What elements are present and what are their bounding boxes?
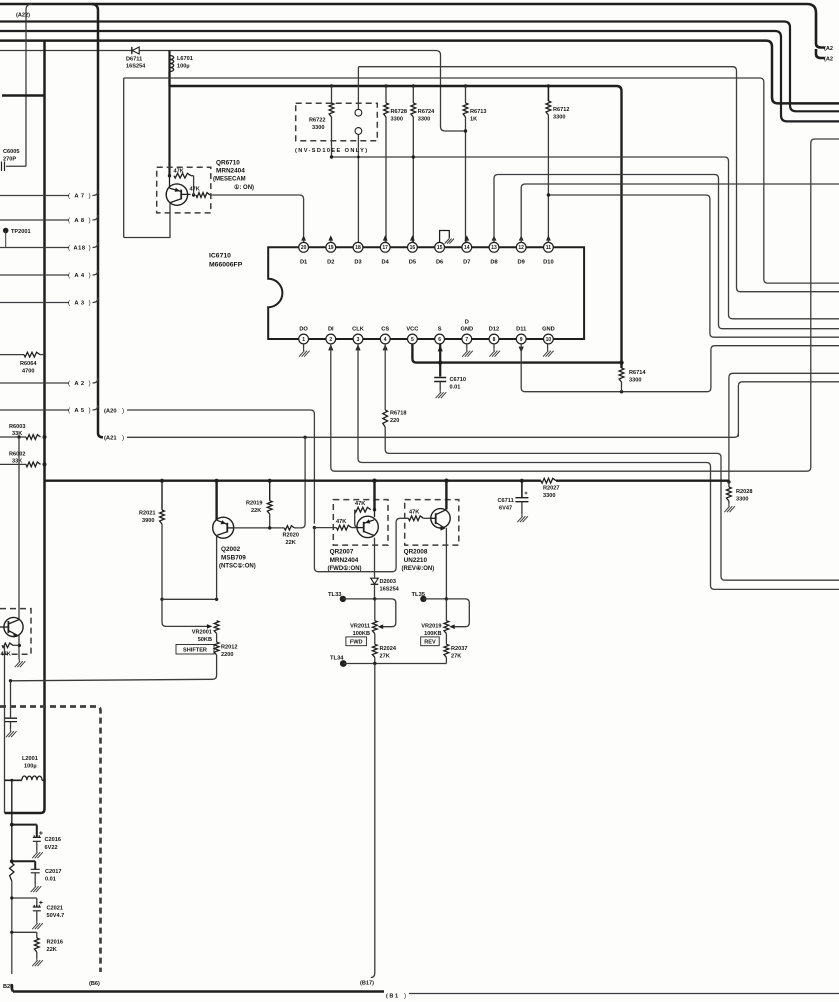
svg-text:D1: D1 — [300, 260, 307, 266]
svg-text:33K: 33K — [12, 431, 22, 437]
svg-text:D6: D6 — [436, 260, 443, 266]
wire: TL35 row to VR2019 wiper — [446, 599, 469, 629]
svg-text:16: 16 — [410, 245, 416, 251]
svg-text:100µ: 100µ — [177, 64, 190, 70]
svg-text:A 4: A 4 — [74, 273, 85, 279]
ground at pin 7 (D GND) — [462, 344, 473, 357]
svg-text:2: 2 — [329, 337, 332, 343]
svg-text:270P: 270P — [3, 157, 16, 163]
ground at pin 8 (D12) — [489, 344, 500, 357]
svg-text:(A20: (A20 — [104, 408, 117, 414]
wire: jumper top row y=66.7 to right edge — [358, 67, 839, 292]
diode D6711 16S254 — [126, 47, 146, 70]
svg-text:D5: D5 — [409, 260, 416, 266]
svg-text:1: 1 — [302, 337, 305, 343]
wire: (A21) drop to R2020 — [295, 437, 306, 528]
potentiometer VR2001 50KB — [192, 621, 219, 643]
wire: pin 13 (D8) feed row 174.5 — [494, 175, 839, 329]
wire: top bus line 3 — [0, 31, 839, 121]
svg-text:D4: D4 — [382, 260, 390, 266]
wire: TL33 row to VR2011 wiper — [375, 599, 396, 629]
svg-text:): ) — [122, 435, 124, 442]
svg-text:MRN2404: MRN2404 — [330, 557, 359, 564]
svg-text:(A22): (A22) — [16, 13, 30, 19]
jumper circles (NV-SD10EE) — [355, 67, 362, 243]
wire: emitter return row y=680.8 — [10, 681, 12, 718]
svg-text:R2028: R2028 — [736, 489, 752, 495]
node (A21) connector and net — [104, 433, 738, 441]
svg-text:R6722: R6722 — [309, 118, 325, 124]
resistor R2028 3300 — [724, 480, 752, 512]
svg-text:VR2019: VR2019 — [421, 624, 441, 630]
svg-text:15: 15 — [437, 245, 443, 251]
wire: thick vertical feeder x=44.5 with bottom corner to x=4.5 — [5, 41, 45, 813]
svg-text:R2037: R2037 — [451, 646, 467, 652]
wire: QR6710 emitter row y=78 to right edge — [124, 78, 839, 283]
resistor R6728 3300 — [384, 86, 407, 242]
svg-text:47K: 47K — [355, 501, 365, 507]
wire: (A20) node distribution — [313, 518, 409, 571]
svg-text:D12: D12 — [489, 327, 499, 333]
capacitor C6711 6V47 — [498, 481, 529, 523]
svg-text:(A2: (A2 — [824, 46, 833, 52]
svg-text:R6002: R6002 — [9, 452, 25, 458]
svg-text:TL33: TL33 — [328, 592, 342, 598]
svg-text:Q2002: Q2002 — [221, 546, 241, 553]
wire: QR6710 output to pin 20 (D1) — [210, 195, 304, 242]
svg-text:REV: REV — [424, 640, 436, 646]
wire: CLK net (pin 3) to right edge row 589 — [355, 344, 839, 590]
svg-text:D9: D9 — [518, 260, 525, 266]
svg-text:27K: 27K — [451, 654, 461, 660]
svg-text:VR2011: VR2011 — [350, 624, 370, 630]
ground at pin 1 (DO) — [299, 344, 310, 357]
resistor 47K (QR6710 collector out) — [190, 187, 211, 198]
wire: collector feed for bottom-left transistor — [18, 437, 20, 620]
wire: D6711 row (y=50.5) going to R6713 node — [0, 51, 466, 132]
svg-text:12: 12 — [518, 245, 524, 251]
svg-text:QR2007: QR2007 — [330, 549, 354, 556]
svg-text:(A21: (A21 — [104, 436, 117, 442]
svg-text:27K: 27K — [380, 654, 390, 660]
node (B6) connector — [89, 981, 100, 987]
svg-text:6V47: 6V47 — [499, 506, 512, 512]
pin 7 D GND extra label — [465, 320, 469, 326]
svg-text:3300: 3300 — [391, 117, 403, 123]
resistor 47K (QR6710 base-collector) — [174, 169, 194, 196]
svg-text:5: 5 — [411, 337, 414, 343]
svg-text:22K: 22K — [286, 540, 296, 546]
capacitor C6005 270P — [2, 149, 20, 171]
node A5 connector — [0, 405, 98, 414]
resistor 47K (QR2008 base) — [408, 510, 430, 521]
svg-text:D3: D3 — [354, 260, 361, 266]
svg-text:VCC: VCC — [406, 327, 418, 333]
svg-text:DO: DO — [299, 327, 308, 333]
svg-text:A18: A18 — [73, 246, 85, 252]
wire: Q2002 emitter return to left — [9, 655, 217, 683]
svg-text:22K: 22K — [47, 947, 57, 953]
svg-text:50KB: 50KB — [198, 637, 212, 643]
resistor R6064 4700 — [0, 352, 45, 374]
node A4 connector — [0, 270, 98, 279]
label REV box — [421, 637, 440, 646]
svg-text:220: 220 — [390, 418, 399, 424]
node A7 connector — [0, 191, 98, 200]
svg-text:47K: 47K — [174, 169, 184, 175]
label SHIFTER box — [176, 645, 214, 655]
test point TP2001 — [3, 228, 31, 248]
wire: bottom border line with (B1) connector — [12, 984, 839, 1000]
transistor QR6710 MRN2404 (MESECAM switch) — [124, 78, 211, 238]
resistor R2027 3300 (inline rail) — [541, 478, 559, 499]
node A2 connector — [0, 378, 98, 387]
resistor R6714 3300 — [619, 368, 646, 392]
svg-text:L6701: L6701 — [177, 56, 193, 62]
svg-text:D10: D10 — [543, 260, 553, 266]
svg-text:C6005: C6005 — [3, 149, 19, 155]
svg-text:14: 14 — [464, 245, 470, 251]
wire: thick stub row y=95.5 — [2, 94, 45, 96]
svg-text:): ) — [89, 407, 91, 414]
svg-text:0.01: 0.01 — [450, 385, 461, 391]
wire: pin 11 net row 195 to right edge row 337 — [547, 193, 839, 337]
svg-text:R6712: R6712 — [553, 107, 569, 113]
resistor R2019 22K — [246, 481, 272, 528]
svg-text:): ) — [89, 380, 91, 387]
svg-text:S: S — [438, 327, 442, 333]
dashed box QR2008 — [405, 500, 459, 545]
wire: Q2002 base row — [234, 526, 285, 529]
svg-text:CLK: CLK — [352, 327, 365, 333]
capacitor C2016 6V22 — [10, 823, 61, 859]
wire: emitter chain down to (B17) — [371, 664, 375, 978]
svg-text:17: 17 — [382, 245, 388, 251]
resistor R6718 220 — [383, 410, 407, 427]
wire: D11 net (pin 9) to right edge row 345.7 — [519, 344, 839, 394]
svg-text:50V4.7: 50V4.7 — [47, 913, 65, 919]
svg-text:M66006FP: M66006FP — [209, 262, 243, 269]
svg-text:3300: 3300 — [418, 117, 430, 123]
svg-text:A 3: A 3 — [74, 301, 85, 307]
node (B17) connector — [360, 981, 374, 987]
wire: DI net (pin 2) to right edge row 139 — [328, 139, 839, 471]
svg-text:11: 11 — [546, 245, 552, 251]
wire: VR2001 wiper feed — [162, 599, 212, 628]
svg-text:QR6710: QR6710 — [216, 160, 240, 167]
svg-text:100KB: 100KB — [353, 631, 370, 637]
transistor Q2002 MSB709 — [213, 481, 256, 600]
svg-text:3: 3 — [357, 337, 360, 343]
svg-text:GND: GND — [542, 327, 555, 333]
wire: +B rail y=86 with corner down to R6714 — [170, 84, 622, 368]
svg-text:R6714: R6714 — [629, 370, 646, 376]
node: D2/D5 option row y=157 out to right edge — [330, 155, 839, 318]
svg-text:3900: 3900 — [142, 518, 154, 524]
svg-text:C2017: C2017 — [45, 869, 61, 875]
svg-text:(NV-SD10EE ONLY): (NV-SD10EE ONLY) — [295, 148, 368, 154]
svg-text:C6711: C6711 — [498, 498, 514, 504]
resistor R6713 1K — [463, 86, 486, 242]
pin 15 (D6) ground bracket — [440, 231, 454, 244]
svg-text:UN2210: UN2210 — [404, 557, 428, 564]
svg-text:C2016: C2016 — [45, 837, 61, 843]
wire: thick vertical feeder x=98 — [92, 4, 104, 437]
svg-text:VR2001: VR2001 — [192, 630, 212, 636]
resistor R2012 2200 — [214, 642, 237, 658]
svg-text:(REV④:ON): (REV④:ON) — [402, 565, 435, 572]
capacitor C6710 0.01 — [434, 377, 466, 398]
svg-text:C2021: C2021 — [47, 906, 63, 912]
svg-text:A 8: A 8 — [74, 218, 85, 224]
svg-text:D8: D8 — [490, 260, 497, 266]
svg-text:22K: 22K — [251, 508, 261, 514]
node A8 connector — [0, 215, 98, 224]
svg-text:A 7: A 7 — [74, 194, 84, 200]
svg-text:D11: D11 — [516, 327, 526, 333]
svg-text:R6713: R6713 — [470, 109, 486, 115]
wire: left feeder column x=11.8 down to B2 — [10, 779, 13, 974]
wire: pin 12 (D9) feed row 184 to right edge — [521, 184, 839, 242]
svg-text:100KB: 100KB — [424, 631, 441, 637]
svg-text:(MESECAM: (MESECAM — [213, 177, 246, 183]
svg-text:3300: 3300 — [553, 115, 565, 121]
svg-text:2200: 2200 — [221, 652, 233, 658]
svg-text:(A2: (A2 — [824, 57, 833, 63]
resistor R2020 22K — [283, 526, 299, 546]
svg-text:): ) — [89, 300, 91, 307]
inductor L2001 100u — [5, 756, 46, 780]
svg-text:D: D — [465, 320, 469, 326]
resistor R6712 3300 — [546, 86, 569, 242]
svg-text:DI: DI — [328, 327, 334, 333]
test point TL34 — [330, 656, 446, 667]
svg-text:R2016: R2016 — [47, 940, 63, 946]
svg-text:MSB709: MSB709 — [221, 555, 246, 562]
svg-text:): ) — [122, 407, 124, 414]
capacitor (bypass at x=10.5) — [4, 718, 17, 737]
wire: VCC net (pin 5) thick — [412, 344, 623, 365]
op IC6710 M66006FP body — [209, 247, 584, 339]
resistor R6724 3300 — [411, 86, 435, 242]
wire: top bus line 1 to connector (A2x) — [0, 4, 833, 63]
svg-text:CS: CS — [381, 327, 389, 333]
svg-text:R2027: R2027 — [543, 486, 559, 492]
svg-text:R6718: R6718 — [390, 411, 406, 417]
svg-text:(B6): (B6) — [89, 981, 100, 987]
svg-text:(B17): (B17) — [360, 981, 374, 987]
svg-text:FWD: FWD — [350, 640, 363, 646]
svg-text:D6711: D6711 — [126, 57, 142, 63]
node (A22) label — [16, 13, 30, 19]
svg-text:(NTSC①:ON): (NTSC①:ON) — [219, 563, 256, 570]
wire: S net (pin 6) thick down to C6710 — [438, 344, 443, 377]
svg-text:): ) — [89, 193, 91, 200]
svg-text:19: 19 — [328, 245, 334, 251]
svg-text:R2021: R2021 — [139, 511, 155, 517]
svg-text:R6064: R6064 — [20, 361, 37, 367]
resistor 47K (bottom-left) — [1, 643, 20, 657]
resistor R6722 3300 — [309, 86, 334, 157]
resistor 47K (QR2007 base) — [336, 519, 357, 530]
svg-text:): ) — [89, 245, 91, 252]
resistor R2016 22K — [10, 931, 63, 967]
svg-text:D2003: D2003 — [380, 579, 396, 585]
IC6710 top pins 20-11 (D1-D10) — [299, 242, 554, 265]
inductor L6701 100u — [170, 51, 193, 87]
wire: lower +B rail y=480.7 — [45, 479, 729, 483]
svg-text:( B 1: ( B 1 — [386, 994, 398, 1000]
test point TL33 — [328, 592, 376, 602]
wire: thick vertical from diode row to QR6710 — [168, 51, 170, 176]
svg-text:A 5: A 5 — [74, 408, 85, 414]
wire: top bus line 2 — [0, 22, 839, 112]
node A3 connector — [0, 298, 98, 307]
labels QR6710 — [213, 160, 254, 192]
svg-text:R2020: R2020 — [283, 533, 299, 539]
svg-text:33K: 33K — [12, 459, 22, 465]
resistor R2021 3900 — [139, 481, 164, 600]
svg-text:(FWD①:ON): (FWD①:ON) — [328, 565, 362, 572]
svg-text:QR2008: QR2008 — [404, 549, 428, 556]
svg-text:IC6710: IC6710 — [209, 253, 231, 260]
node (A20) connector and net — [104, 407, 314, 523]
svg-text:47K: 47K — [1, 652, 11, 658]
resistor R2024 27K — [372, 644, 396, 663]
svg-text:D7: D7 — [463, 260, 470, 266]
node B2 connector — [3, 984, 14, 990]
svg-text:6V22: 6V22 — [45, 845, 58, 851]
resistor R6002 33K — [0, 452, 47, 467]
svg-text:0.01: 0.01 — [45, 877, 56, 883]
resistor R2037 27K — [444, 644, 467, 663]
svg-text:9: 9 — [520, 337, 523, 343]
svg-text:47K: 47K — [190, 187, 200, 193]
svg-text:16S254: 16S254 — [380, 587, 400, 593]
ground at pin 10 (GND) — [543, 344, 554, 357]
svg-text:100µ: 100µ — [24, 764, 37, 770]
wire: right edge row 382 down to (A21) row — [738, 382, 839, 437]
diode D2003 16S254 — [371, 578, 400, 599]
label FWD box — [346, 637, 367, 646]
wire: x=4.5 vertical (47K to L2001/corner) — [4, 645, 6, 813]
resistor 47K (QR2007 collector-base) — [355, 501, 371, 528]
potentiometer VR2019 100KB — [421, 599, 449, 644]
svg-text:L2001: L2001 — [22, 756, 38, 762]
svg-text:47K: 47K — [336, 519, 346, 525]
svg-text:8: 8 — [493, 337, 496, 343]
svg-text:R6724: R6724 — [418, 109, 435, 115]
svg-text:R2019: R2019 — [246, 501, 262, 507]
dashed option box NV-SD10EE — [295, 103, 377, 154]
svg-text:R6003: R6003 — [9, 424, 25, 430]
svg-text:4700: 4700 — [22, 369, 34, 375]
svg-text:MRN2404: MRN2404 — [216, 168, 245, 175]
svg-text:3300: 3300 — [629, 378, 641, 384]
svg-text:13: 13 — [491, 245, 497, 251]
svg-text:GND: GND — [460, 327, 473, 333]
svg-text:7: 7 — [465, 337, 468, 343]
svg-text:①: ON): ①: ON) — [234, 184, 254, 191]
svg-text:1K: 1K — [470, 117, 477, 123]
svg-text:20: 20 — [301, 245, 307, 251]
svg-text:47K: 47K — [409, 510, 419, 516]
svg-text:3300: 3300 — [736, 497, 748, 503]
capacitor C2017 0.01 — [10, 859, 62, 892]
svg-text:): ) — [89, 217, 91, 224]
wire: (A22) net — [6, 4, 32, 166]
svg-text:16S254: 16S254 — [126, 64, 146, 70]
capacitor C2021 50V4.7 — [10, 896, 64, 929]
svg-text:D2: D2 — [327, 260, 334, 266]
svg-text:18: 18 — [355, 245, 361, 251]
svg-text:4: 4 — [384, 337, 387, 343]
svg-text:TP2001: TP2001 — [11, 229, 31, 235]
resistor (inline, x=11.8) — [10, 863, 14, 881]
resistor R6003 33K — [0, 424, 47, 439]
shield dashed line to (B6) — [0, 707, 101, 973]
svg-text:6: 6 — [438, 337, 441, 343]
potentiometer VR2011 100KB — [350, 599, 377, 644]
IC6710 bottom pins 1-10 — [299, 327, 555, 344]
svg-text:): ) — [89, 272, 91, 279]
svg-text:R6728: R6728 — [391, 109, 407, 115]
svg-text:3300: 3300 — [312, 125, 324, 131]
svg-text:R2024: R2024 — [380, 646, 397, 652]
wire: R2021 bottom row to Q2002 emitter — [160, 598, 218, 601]
node A18 connector — [0, 243, 98, 252]
svg-text:C6710: C6710 — [450, 377, 466, 383]
dashed box QR2007 — [333, 500, 388, 545]
node: R6713 junction from diode row — [464, 129, 467, 132]
wire: right edge row 373 down to R2028 node — [729, 373, 839, 481]
arrows into IC top pins — [301, 235, 551, 242]
svg-text:3300: 3300 — [543, 493, 555, 499]
test point TL35 — [412, 592, 449, 602]
transistor QR2008 UN2210 — [402, 481, 451, 599]
svg-text:): ) — [404, 993, 406, 1000]
wire: CS net (pin 4) through R6718 to right edge row 580 — [383, 344, 839, 580]
transistor (bottom-left, 47K base) — [0, 609, 31, 668]
svg-text:A 2: A 2 — [74, 381, 84, 387]
svg-text:10: 10 — [546, 337, 552, 343]
transistor QR2007 MRN2404 — [328, 481, 379, 578]
wire: top bus line 4 — [0, 41, 839, 104]
svg-text:SHIFTER: SHIFTER — [183, 648, 207, 654]
svg-text:R2012: R2012 — [221, 645, 237, 651]
